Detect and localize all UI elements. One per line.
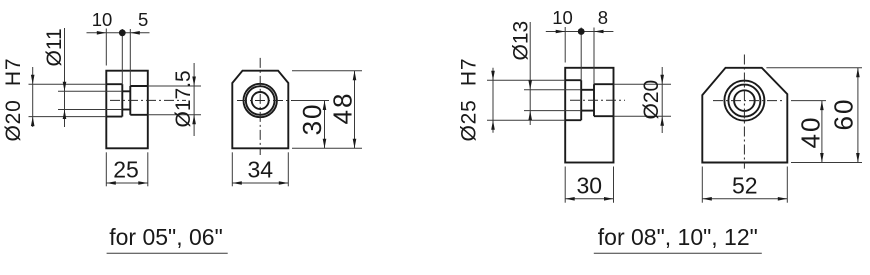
dim D13: upper arrow [528,80,532,90]
svg-text:30: 30 [577,173,603,199]
svg-text:25: 25 [113,157,139,183]
dim D20: lower arrow [31,117,35,127]
dim 25: left arrow [106,181,116,185]
left side view: bore D17.5 bottom edge [130,114,148,116]
dim D11: lower extension line [58,109,122,111]
svg-text:40: 40 [796,116,826,149]
dim 60: top extension line [766,67,862,69]
dim D20: dimension line [32,67,34,127]
dim 25: dimension line [106,182,148,184]
dim 30: dimension line [324,101,326,149]
svg-text:34: 34 [248,157,274,183]
right side view: block outline [565,68,613,163]
dim D17.5: dimension line [193,63,195,136]
dim D11: upper arrow [63,82,67,92]
dim 10/8: left arrow [556,30,566,34]
left side view: bore D20 top edge [106,83,122,85]
svg-text:for 05", 06": for 05", 06" [109,224,223,250]
right side view: bore D25 step face [580,80,582,120]
dim 52: left arrow [702,197,712,201]
dim 60: top arrow [856,68,860,78]
dim D17.5: upper extension line [148,85,201,87]
right front view: circle D25 [724,81,764,121]
left side view: bore D17.5 step face [129,86,131,115]
dim 10/5: extension line bore depth [121,29,123,84]
dim 48: top extension line [292,70,362,72]
right side view: center line [570,99,625,101]
dim 48: top arrow [353,71,357,81]
svg-text:10: 10 [552,7,573,28]
right front view: vertical center line [743,55,745,169]
right side view: bore D20 top edge [594,83,614,85]
dim 34: left extension line [231,152,233,186]
dim D13: lower arrow [528,111,532,121]
dim 34: right arrow [279,181,289,185]
dim D25: upper extension line [487,79,565,81]
dim 10/8: dimension line [546,31,614,33]
left front view: circle D17.5 [246,86,275,115]
dim 25: left extension line [105,152,107,186]
dim D17.5: upper arrow [192,77,196,87]
left front view: circle D11 [252,92,269,109]
dim 52: right arrow [778,197,788,201]
left side view: center line [110,99,186,101]
dim 52: left extension line [701,167,703,203]
dim 10/8: extension line neck end [593,28,595,85]
dim 60: dimension line [857,68,859,163]
dim 30/48: bottom extension line [292,147,362,149]
dim D25: upper arrow [491,71,495,81]
dim 10/5: extension line neck end [129,29,131,86]
dim D11: upper extension line [58,90,122,92]
dim D13: dimension line [529,22,531,125]
svg-text:Ø20 H7: Ø20 H7 [2,58,25,142]
dim D20: upper extension line [29,83,107,85]
dim 10/8: right arrow [594,30,604,34]
dim D20r: lower extension line [614,115,672,117]
dim 40: center extension line [791,100,826,102]
svg-text:Ø17.5: Ø17.5 [172,70,195,127]
dim D17.5: lower extension line [148,114,201,116]
svg-text:5: 5 [138,9,148,30]
dim 52: right extension line [786,167,788,203]
left side view: bore D20 step face [121,84,123,116]
dim D13: upper extension line [524,89,581,91]
right side view: bore D25 top edge [565,79,581,81]
svg-text:48: 48 [328,92,358,125]
caption underline left [107,252,228,254]
dim 30r: dimension line [565,198,613,200]
caption underline right [594,252,762,254]
svg-text:60: 60 [829,98,859,131]
dim 40: dimension line [821,101,823,163]
svg-text:for 08", 10", 12": for 08", 10", 12" [598,224,758,250]
dim 25: right extension line [147,152,149,186]
svg-text:10: 10 [92,9,113,30]
left front view: horizontal center line [237,100,294,102]
svg-text:8: 8 [598,7,608,28]
dim 30r: right arrow [604,197,614,201]
dim 10/8: extension line block left edge [564,27,566,63]
dim 10/8: extension line bore depth [580,28,582,81]
left side view: bore D20 bottom edge [106,116,122,118]
svg-text:52: 52 [732,173,758,199]
left front view: vertical center line [259,58,261,155]
dim 10/5: right arrow [130,31,140,35]
dim 10/5: extension line block left edge [105,29,107,66]
dim 30r: right extension line [613,167,615,203]
dim 34: right extension line [287,152,289,186]
svg-text:Ø25 H7: Ø25 H7 [458,58,481,142]
dim D20r: upper arrow [660,75,664,85]
right front view: horizontal center line [713,100,783,102]
svg-text:30: 30 [297,102,327,135]
right side view: neck D13 bottom edge [581,110,594,112]
svg-text:Ø13: Ø13 [510,21,533,61]
left side view: neck D11 top edge [122,90,130,92]
dim 40: top arrow [820,101,824,111]
dim D13: lower extension line [524,110,581,112]
left side view: neck D11 bottom edge [122,109,130,111]
dim D25: lower arrow [491,120,495,130]
dim D17.5: lower arrow [192,115,196,125]
dim 30r: left arrow [565,197,575,201]
dim D20: lower extension line [29,116,107,118]
svg-text:Ø11: Ø11 [43,28,66,66]
right side view: bore D20 bottom edge [594,115,614,117]
dim 30: top arrow [323,101,327,111]
right front view: pentagon outline [702,68,787,163]
dim 10/5: dimension line [87,32,150,34]
dim 10/5: junction dot [119,29,126,36]
left front view: pentagon outline [232,71,288,149]
dim 34: dimension line [232,182,288,184]
dim 48: dimension line [354,71,356,149]
dim 25: right arrow [138,181,148,185]
dim 52: dimension line [702,198,787,200]
dim 48: bottom arrow [353,139,357,149]
dim D25: dimension line [492,68,494,133]
right side view: neck D13 top edge [581,89,594,91]
right front view: circle D20 [728,85,760,117]
dim 40: bottom arrow [820,153,824,163]
right front view: circle D13 [734,90,755,111]
dim 60: bottom arrow [856,153,860,163]
left side view: block outline [106,71,148,149]
dim 60: bottom extension line [791,162,862,164]
dim D11: lower arrow [63,110,67,120]
right side view: bore D20 step face [593,84,595,116]
left front view: circle D20 [244,84,277,117]
dim 30: center extension line [292,100,329,102]
dim 10/8: junction dot [578,28,585,35]
dim 30r: left extension line [564,167,566,203]
dim 30: bottom arrow [323,139,327,149]
dim 10/5: left arrow [97,31,107,35]
left side view: bore D17.5 top edge [130,85,148,87]
right side view: bore D25 bottom edge [565,119,581,121]
dim D20r: lower arrow [660,116,664,126]
dim 34: left arrow [232,181,242,185]
dim D20r: dimension line [661,67,663,133]
dim D25: lower extension line [487,119,565,121]
svg-text:Ø20: Ø20 [640,80,663,120]
dim D11: dimension line [64,28,66,127]
dim D20: upper arrow [31,75,35,85]
dim D20r: upper extension line [614,83,672,85]
